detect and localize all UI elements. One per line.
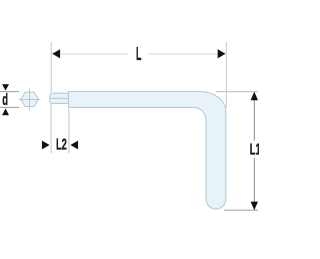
dimension L2: left extension line [50,104,52,153]
dimension d: top extension line [0,91,19,93]
hexagon end view [21,92,39,106]
svg-text:d: d [2,90,8,109]
svg-text:L: L [136,44,141,64]
hexagon centerline vertical [29,88,31,110]
dimension d: up arrow [2,108,9,115]
dimension L: dimension line [52,53,128,55]
dimension L2: right extension line [68,109,70,153]
dimension L: left extension line [50,42,52,93]
dimension L2: right-pointing arrow [42,141,50,150]
dimension L: right arrow [218,49,226,58]
hex key body (L-shaped wrench) [69,92,226,210]
dimension L1: down arrow [251,202,258,211]
dimension L1: dimension line [253,93,255,141]
dimension L1: bottom extension line [224,209,258,211]
dimension L: right extension line [225,42,227,108]
svg-text:L2: L2 [56,136,67,153]
dimension L1: up arrow [251,92,258,101]
dimension L2: left-pointing arrow [70,141,78,150]
svg-text:L1: L1 [250,141,259,158]
dimension d: down arrow [2,84,9,90]
dimension L: left arrow [52,49,60,58]
hexagon centerline horizontal [19,98,41,100]
dimension L1: top extension line [216,91,258,93]
dimension d: bottom extension line [0,106,19,108]
hex tip stub (short arm end, across-flats view) [50,93,70,103]
